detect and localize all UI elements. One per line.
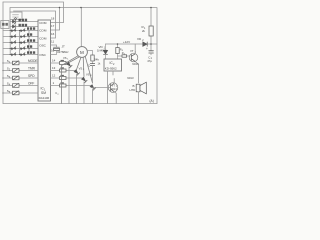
svg-text:+: + [146,47,148,51]
wire row K3 [3,42,38,44]
wire motor lead 2 [69,57,79,63]
svg-text:M: M [80,50,84,55]
wire motor lead 3 [77,57,82,69]
IC2 box KD-9562 [104,59,122,71]
svg-text:47μ: 47μ [147,59,152,63]
thyristor labels [55,56,92,96]
svg-text:KD-9562: KD-9562 [105,66,117,70]
svg-text:9013: 9013 [127,76,134,80]
resistor R2 [118,55,130,57]
wire top COM1 line [3,2,64,23]
label box left (Chinese) [1,21,9,29]
wire matrix bus x19.5 [19,31,21,55]
thyristor VS4 [90,85,96,104]
diode VD1 1N4001 [103,44,107,59]
wire row K4 [3,48,38,50]
matrix row labels (Chinese blobs) [27,27,35,54]
svg-text:+12V: +12V [123,40,130,44]
switch S3 [3,76,38,80]
svg-text:1: 1 [67,59,69,61]
switch S1 [3,61,38,65]
svg-text:DA1106: DA1106 [39,96,50,100]
svg-text:SM: SM [41,91,46,95]
LED D2 [10,23,38,29]
IC1 pin numbers [51,17,56,86]
thyristor VS1 [67,62,73,103]
LED D1 [10,17,38,23]
wire row K1 [3,30,38,32]
wire IC2 ground pin [107,71,109,104]
svg-text:VT: VT [112,83,116,87]
svg-text:1: 1 [53,81,55,85]
svg-text:11: 11 [51,40,54,44]
diode VD2 [143,42,147,46]
switch S2 [3,68,38,72]
thyristor VS3 [82,77,88,103]
wire row K5 [3,54,38,56]
svg-text:3: 3 [9,76,11,79]
resistor designators [61,60,64,84]
svg-text:13: 13 [52,66,56,70]
svg-text:2: 2 [57,94,59,96]
resistor R1 2k [149,8,153,51]
wire COM2 riser [51,8,60,31]
switch S5 [3,91,38,95]
motor M [77,8,88,58]
svg-text:2: 2 [9,68,11,71]
svg-text:OSC: OSC [39,44,46,48]
capacitor C2 [90,64,94,83]
matrix switches column 1 [11,29,16,56]
wire VT2 collector [113,79,115,84]
transistor VT2 9013 [108,83,118,93]
svg-text:HTD: HTD [130,88,136,92]
svg-text:4: 4 [9,83,11,86]
wire top power line [10,8,157,13]
svg-text:COM: COM [39,29,47,33]
junction dots matrix [2,30,29,94]
resistor R6 [51,77,85,80]
wire IC2 out pin [112,71,114,75]
IC1 pin labels [39,21,47,57]
resistor R8 24k [87,51,94,64]
IC1 box [38,20,51,101]
svg-text:VT: VT [130,49,134,53]
wire bottom bus [3,103,157,105]
svg-text:MODE: MODE [28,59,38,63]
svg-text:3: 3 [90,75,92,77]
matrix switches column 2 [20,29,25,56]
resistor R5 [51,69,77,72]
svg-text:24k: 24k [94,57,99,61]
wire matrix bus x10 [9,20,11,55]
svg-text:1: 1 [135,51,137,53]
svg-text:12: 12 [52,74,56,78]
LED D1 label [19,19,28,22]
wire matrix bus x29 [28,31,30,55]
svg-text:1k: 1k [98,62,101,66]
IR receiver box [10,12,22,20]
svg-text:COM: COM [39,37,47,41]
wire 12V rail [106,43,158,45]
resistor R3 [116,44,119,59]
resistor R7 [51,84,93,87]
svg-text:17: 17 [51,24,55,28]
capacitor C1 47u [149,51,154,55]
svg-text:16: 16 [51,32,55,36]
wire COM3 line [14,11,56,38]
thyristor VS2 [74,70,80,104]
svg-text:JT: JT [62,45,66,49]
key matrix rows [3,31,38,55]
svg-text:2: 2 [83,69,85,71]
resistor R4 [51,62,70,65]
wire motor lead 1 [62,56,79,104]
svg-text:OSC: OSC [39,53,46,57]
svg-text:TMR: TMR [28,67,36,71]
wire VT2 base [93,86,111,88]
svg-text:5: 5 [9,91,11,94]
LED D2 label [19,24,28,27]
wire left bus [2,2,4,104]
svg-text:COM: COM [39,21,47,25]
IC1 name text [39,87,50,100]
transistor VT1 9013 [129,53,138,62]
svg-text:1N4001: 1N4001 [97,48,107,52]
svg-text:32768Hz: 32768Hz [57,50,69,54]
svg-text:9013: 9013 [132,62,139,66]
buzzer B HTD [136,82,146,103]
wire VT1 emitter to buzzer [135,61,138,83]
wire motor lead 4 [82,57,85,76]
wire VT2 emitter [114,92,116,104]
svg-text:9013: 9013 [111,87,117,91]
wire row K2 [3,36,38,38]
svg-text:14: 14 [52,59,56,63]
wire motor lead 5 [85,56,92,83]
crystal JT 32768Hz [51,45,60,55]
switch S4 [3,83,38,87]
svg-text:2: 2 [142,39,144,42]
svg-text:OFF: OFF [28,82,34,86]
wire VT1 collector [134,44,136,54]
junction dots [59,7,152,45]
svg-text:SPD: SPD [28,74,35,78]
svg-text:18: 18 [51,17,55,21]
svg-text:(A): (A) [150,99,154,103]
wire right edge [156,8,158,104]
